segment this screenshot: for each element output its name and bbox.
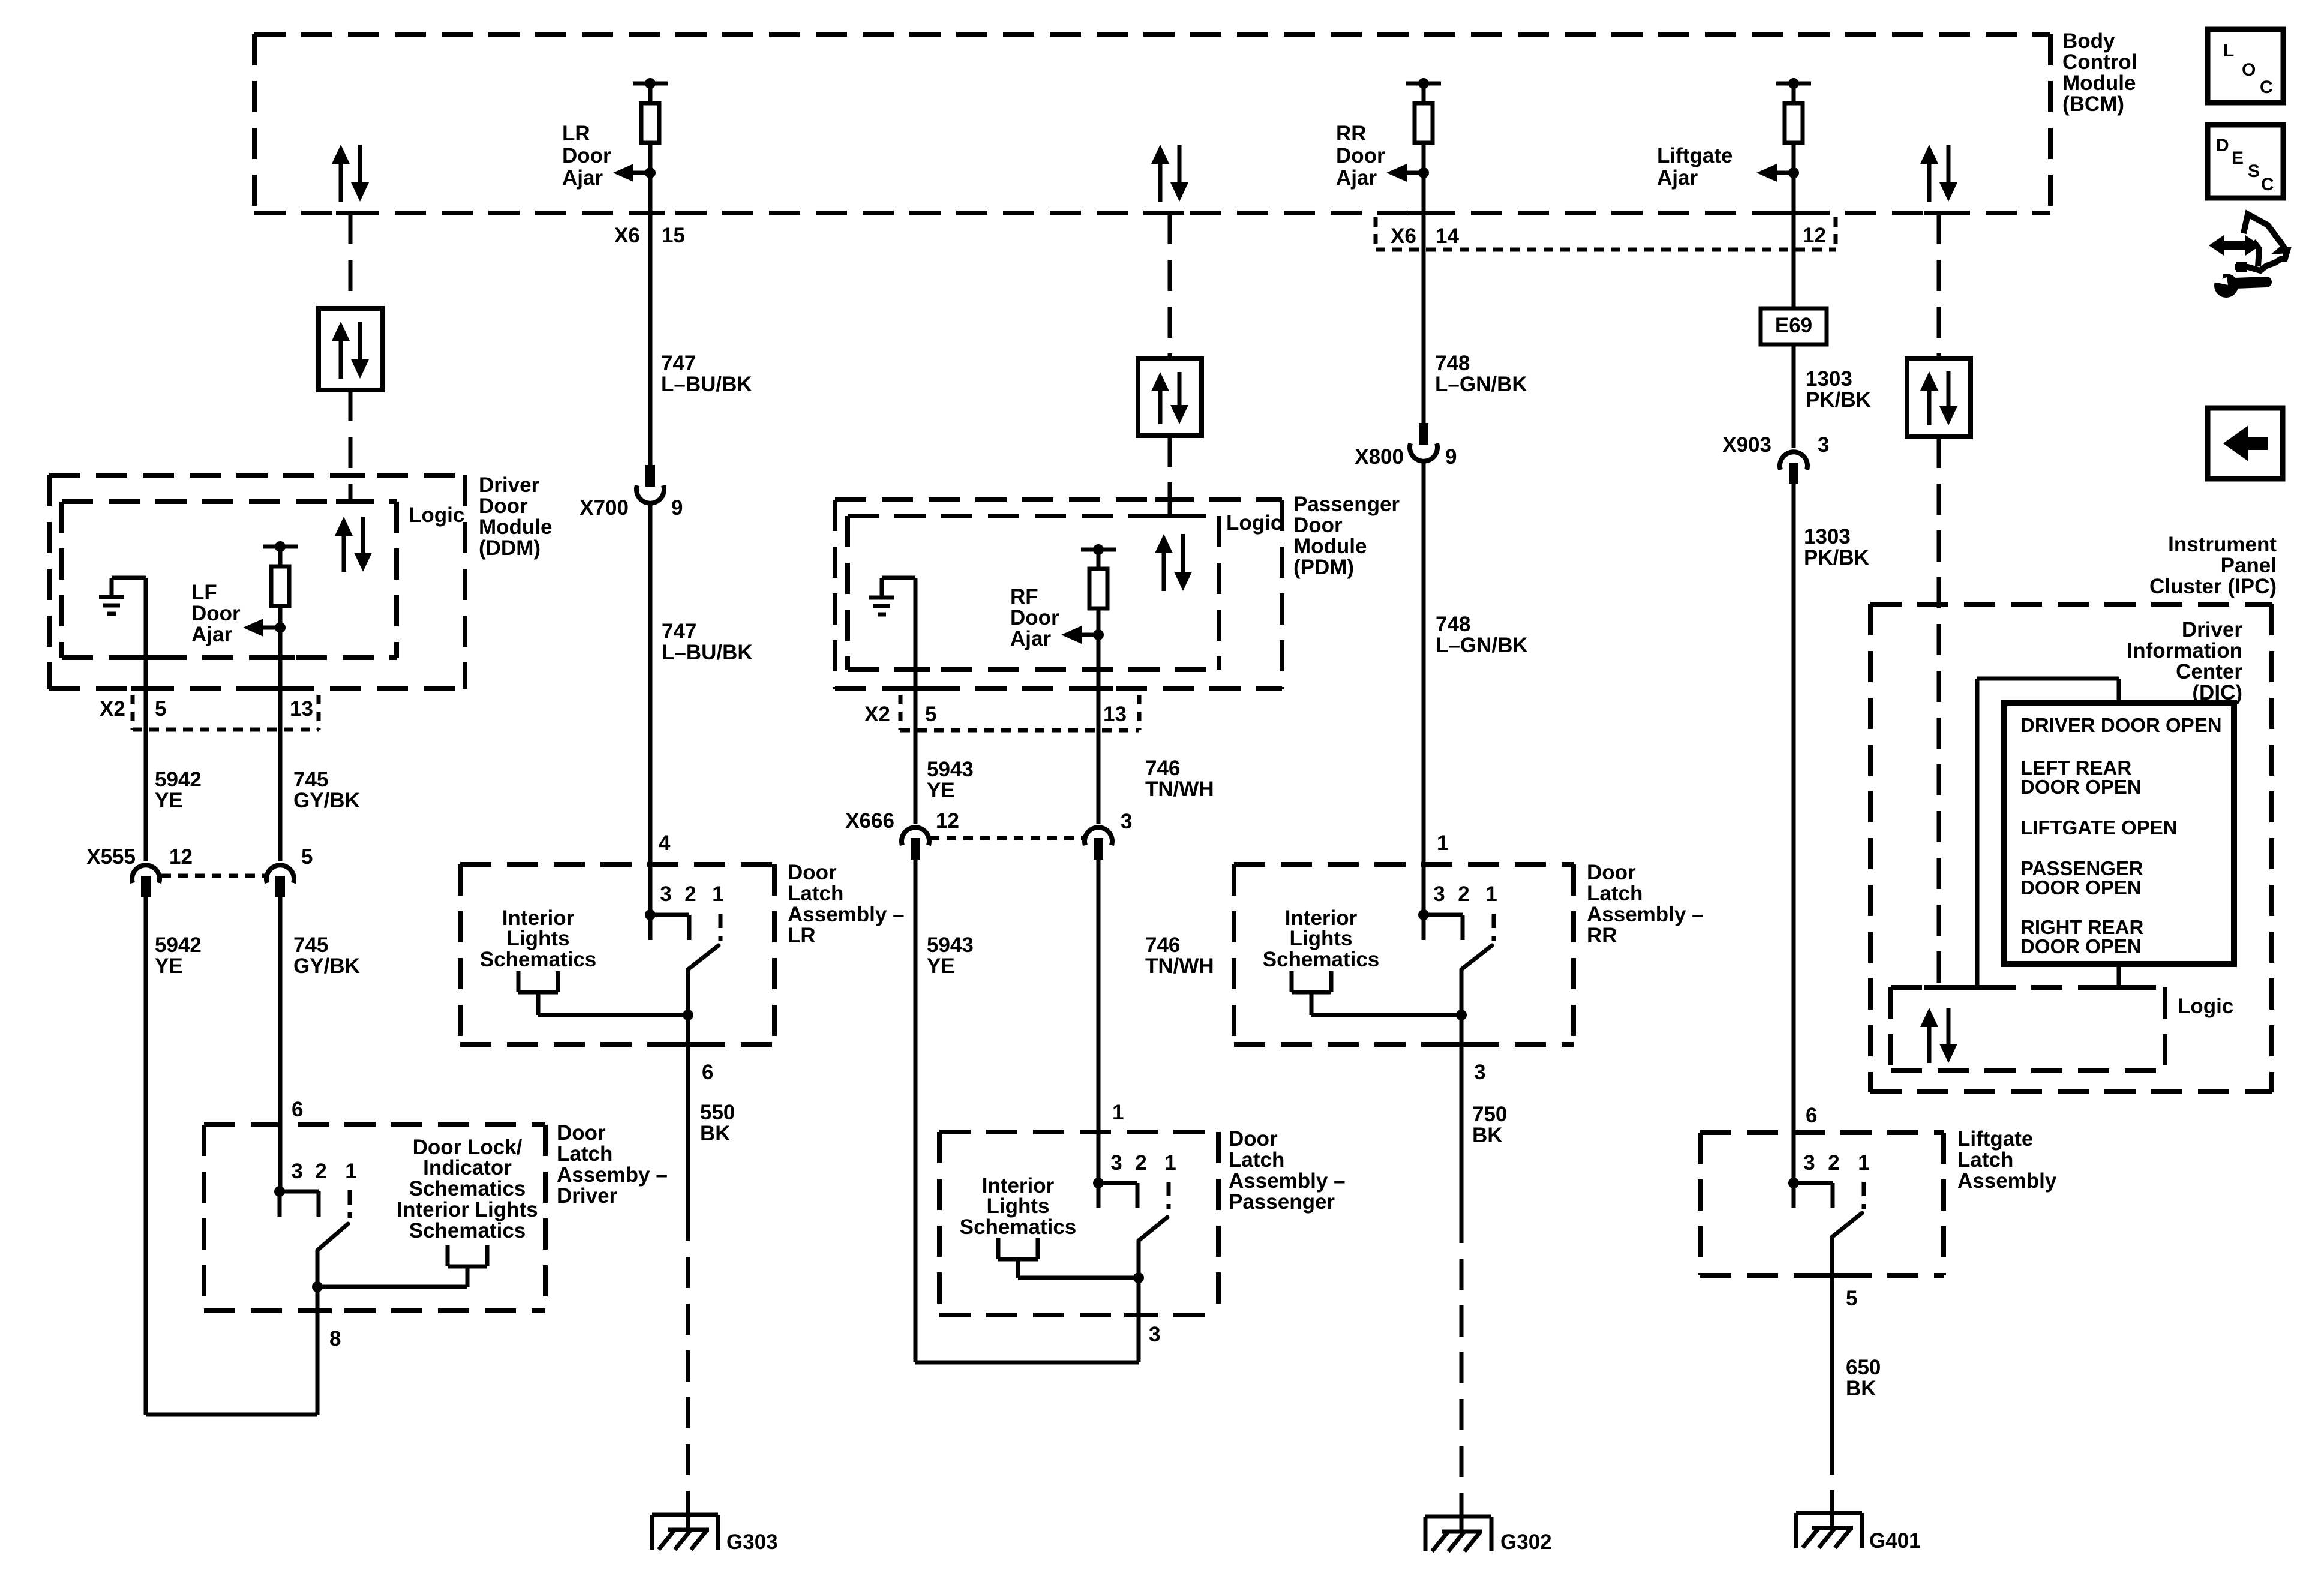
svg-text:Panel: Panel bbox=[2221, 554, 2277, 577]
svg-text:RF: RF bbox=[1010, 585, 1038, 608]
svg-text:Schematics: Schematics bbox=[1263, 948, 1380, 971]
svg-text:1: 1 bbox=[1112, 1101, 1124, 1124]
svg-text:Door: Door bbox=[562, 144, 611, 167]
svg-text:12: 12 bbox=[936, 809, 959, 833]
svg-text:1: 1 bbox=[712, 882, 723, 906]
svg-text:3: 3 bbox=[1803, 1151, 1815, 1175]
svg-text:DOOR OPEN: DOOR OPEN bbox=[2020, 776, 2142, 798]
svg-text:8: 8 bbox=[329, 1327, 341, 1350]
svg-text:Door: Door bbox=[479, 494, 528, 518]
svg-text:S: S bbox=[2248, 161, 2260, 181]
svg-text:15: 15 bbox=[662, 224, 685, 247]
svg-text:745: 745 bbox=[293, 933, 328, 957]
svg-text:BK: BK bbox=[1472, 1124, 1503, 1147]
svg-text:Schematics: Schematics bbox=[480, 948, 597, 971]
svg-text:LR: LR bbox=[788, 924, 816, 947]
svg-text:L–GN/BK: L–GN/BK bbox=[1436, 634, 1528, 657]
svg-text:Latch: Latch bbox=[788, 882, 843, 905]
svg-text:(BCM): (BCM) bbox=[2062, 92, 2124, 116]
svg-text:DOOR OPEN: DOOR OPEN bbox=[2020, 876, 2142, 899]
svg-text:Liftgate: Liftgate bbox=[1957, 1127, 2033, 1151]
svg-text:YE: YE bbox=[155, 789, 183, 812]
svg-text:747: 747 bbox=[662, 620, 696, 643]
svg-text:9: 9 bbox=[671, 496, 683, 520]
svg-text:(DDM): (DDM) bbox=[479, 536, 541, 560]
svg-text:750: 750 bbox=[1472, 1103, 1507, 1126]
svg-text:BK: BK bbox=[1846, 1377, 1876, 1400]
svg-text:L–BU/BK: L–BU/BK bbox=[662, 641, 753, 664]
svg-text:X700: X700 bbox=[580, 496, 629, 520]
svg-text:9: 9 bbox=[1445, 445, 1457, 469]
svg-text:748: 748 bbox=[1436, 613, 1470, 636]
svg-text:Module: Module bbox=[479, 515, 552, 539]
svg-text:TN/WH: TN/WH bbox=[1145, 778, 1214, 801]
svg-text:Body: Body bbox=[2062, 29, 2115, 53]
svg-text:L: L bbox=[2223, 41, 2234, 61]
svg-text:Door: Door bbox=[1293, 514, 1343, 537]
svg-text:650: 650 bbox=[1846, 1356, 1881, 1379]
svg-text:Assembly –: Assembly – bbox=[1587, 903, 1704, 926]
svg-text:6: 6 bbox=[702, 1061, 713, 1084]
svg-text:X666: X666 bbox=[845, 809, 894, 833]
svg-text:Latch: Latch bbox=[557, 1142, 612, 1166]
svg-text:Cluster (IPC): Cluster (IPC) bbox=[2149, 575, 2277, 598]
svg-text:PK/BK: PK/BK bbox=[1806, 388, 1871, 412]
svg-text:2: 2 bbox=[1828, 1151, 1839, 1175]
svg-text:Door: Door bbox=[788, 861, 837, 884]
svg-text:Passenger: Passenger bbox=[1229, 1190, 1335, 1214]
svg-text:13: 13 bbox=[1103, 703, 1127, 726]
svg-text:E69: E69 bbox=[1775, 314, 1812, 337]
svg-text:Interior Lights: Interior Lights bbox=[397, 1198, 538, 1221]
svg-text:Ajar: Ajar bbox=[1336, 166, 1377, 190]
svg-text:6: 6 bbox=[1806, 1104, 1817, 1127]
svg-text:747: 747 bbox=[661, 352, 696, 375]
svg-text:3: 3 bbox=[1474, 1061, 1485, 1084]
svg-text:X6: X6 bbox=[614, 224, 640, 247]
svg-text:LIFTGATE OPEN: LIFTGATE OPEN bbox=[2020, 816, 2178, 839]
svg-text:Door: Door bbox=[1229, 1127, 1278, 1151]
svg-text:Ajar: Ajar bbox=[562, 166, 603, 190]
svg-text:YE: YE bbox=[155, 954, 183, 978]
svg-text:RR: RR bbox=[1336, 122, 1367, 145]
svg-text:X903: X903 bbox=[1722, 433, 1771, 457]
svg-text:746: 746 bbox=[1145, 933, 1180, 957]
svg-text:748: 748 bbox=[1435, 352, 1470, 375]
svg-text:Instrument: Instrument bbox=[2168, 533, 2277, 556]
svg-text:Door: Door bbox=[1010, 606, 1059, 629]
svg-text:Ajar: Ajar bbox=[1657, 166, 1698, 190]
svg-text:1: 1 bbox=[1164, 1151, 1176, 1175]
svg-text:LF: LF bbox=[191, 581, 217, 604]
svg-text:Control: Control bbox=[2062, 50, 2137, 74]
svg-text:L–BU/BK: L–BU/BK bbox=[661, 373, 752, 396]
svg-text:TN/WH: TN/WH bbox=[1145, 954, 1214, 978]
svg-text:O: O bbox=[2242, 60, 2256, 80]
svg-text:RR: RR bbox=[1587, 924, 1617, 947]
svg-text:5942: 5942 bbox=[155, 768, 202, 791]
svg-text:12: 12 bbox=[1803, 224, 1826, 247]
svg-text:2: 2 bbox=[315, 1160, 326, 1183]
svg-text:DRIVER DOOR OPEN: DRIVER DOOR OPEN bbox=[2020, 714, 2222, 736]
svg-text:Door: Door bbox=[1587, 861, 1636, 884]
svg-text:Information: Information bbox=[2127, 639, 2242, 662]
svg-text:Center: Center bbox=[2176, 660, 2242, 683]
svg-text:5: 5 bbox=[301, 845, 313, 869]
svg-text:LR: LR bbox=[562, 122, 590, 145]
svg-text:6: 6 bbox=[292, 1098, 303, 1121]
svg-text:746: 746 bbox=[1145, 757, 1180, 780]
svg-text:C: C bbox=[2260, 77, 2273, 97]
svg-text:Schematics: Schematics bbox=[409, 1219, 526, 1242]
svg-text:5: 5 bbox=[1846, 1287, 1857, 1310]
svg-text:G303: G303 bbox=[726, 1530, 778, 1554]
svg-text:5943: 5943 bbox=[927, 758, 974, 781]
svg-text:1303: 1303 bbox=[1806, 367, 1852, 391]
svg-text:Assemby –: Assemby – bbox=[557, 1163, 668, 1187]
svg-text:3: 3 bbox=[660, 882, 671, 906]
svg-text:1: 1 bbox=[1485, 882, 1497, 906]
svg-text:3: 3 bbox=[1110, 1151, 1122, 1175]
svg-text:Lights: Lights bbox=[507, 927, 570, 950]
svg-text:PK/BK: PK/BK bbox=[1804, 546, 1869, 569]
svg-text:GY/BK: GY/BK bbox=[293, 954, 360, 978]
svg-text:Door: Door bbox=[1336, 144, 1385, 167]
svg-text:3: 3 bbox=[1818, 433, 1829, 457]
svg-text:YE: YE bbox=[927, 954, 955, 978]
svg-text:BK: BK bbox=[700, 1122, 731, 1145]
svg-text:Assembly –: Assembly – bbox=[788, 903, 905, 926]
svg-text:5: 5 bbox=[155, 697, 166, 721]
svg-text:YE: YE bbox=[927, 779, 955, 802]
svg-text:Logic: Logic bbox=[409, 503, 464, 527]
svg-text:C: C bbox=[2261, 175, 2274, 194]
svg-text:Lights: Lights bbox=[1290, 927, 1353, 950]
svg-text:X555: X555 bbox=[86, 845, 136, 869]
svg-text:1: 1 bbox=[345, 1160, 356, 1183]
svg-text:G401: G401 bbox=[1869, 1529, 1921, 1553]
svg-text:D: D bbox=[2216, 136, 2229, 155]
svg-text:14: 14 bbox=[1436, 224, 1459, 248]
svg-text:X800: X800 bbox=[1355, 445, 1404, 469]
svg-text:Schematics: Schematics bbox=[409, 1177, 526, 1200]
svg-text:Ajar: Ajar bbox=[191, 623, 232, 646]
svg-text:DOOR OPEN: DOOR OPEN bbox=[2020, 935, 2142, 957]
svg-text:E: E bbox=[2232, 148, 2244, 168]
svg-text:Module: Module bbox=[1293, 535, 1367, 558]
svg-text:Latch: Latch bbox=[1957, 1148, 2013, 1172]
svg-text:12: 12 bbox=[169, 845, 193, 869]
svg-text:550: 550 bbox=[700, 1101, 735, 1124]
svg-text:Door: Door bbox=[191, 602, 241, 625]
svg-text:Ajar: Ajar bbox=[1010, 627, 1051, 650]
svg-text:5: 5 bbox=[925, 703, 936, 726]
svg-text:1: 1 bbox=[1437, 831, 1448, 855]
svg-text:Door: Door bbox=[557, 1121, 606, 1145]
svg-text:Passenger: Passenger bbox=[1293, 493, 1400, 516]
svg-text:Lights: Lights bbox=[987, 1194, 1050, 1218]
svg-text:Assembly –: Assembly – bbox=[1229, 1169, 1346, 1193]
svg-text:X2: X2 bbox=[100, 697, 125, 721]
svg-text:2: 2 bbox=[1135, 1151, 1146, 1175]
svg-text:3: 3 bbox=[1433, 882, 1445, 906]
svg-text:Latch: Latch bbox=[1229, 1148, 1284, 1172]
svg-text:Logic: Logic bbox=[1226, 511, 1282, 535]
svg-text:Latch: Latch bbox=[1587, 882, 1643, 905]
svg-text:Indicator: Indicator bbox=[423, 1156, 512, 1179]
svg-text:5942: 5942 bbox=[155, 933, 202, 957]
svg-text:Assembly: Assembly bbox=[1957, 1169, 2057, 1193]
svg-text:Driver: Driver bbox=[2182, 618, 2243, 641]
svg-text:(PDM): (PDM) bbox=[1293, 556, 1354, 579]
svg-text:1: 1 bbox=[1858, 1151, 1869, 1175]
svg-text:1303: 1303 bbox=[1804, 525, 1851, 548]
svg-text:X2: X2 bbox=[864, 703, 890, 726]
svg-text:GY/BK: GY/BK bbox=[293, 789, 360, 812]
svg-text:Module: Module bbox=[2062, 71, 2136, 95]
svg-text:L–GN/BK: L–GN/BK bbox=[1435, 373, 1527, 396]
svg-text:X6: X6 bbox=[1391, 224, 1416, 248]
svg-text:3: 3 bbox=[1121, 810, 1132, 833]
svg-text:745: 745 bbox=[293, 768, 328, 791]
svg-text:Liftgate: Liftgate bbox=[1657, 144, 1733, 167]
svg-text:2: 2 bbox=[1458, 882, 1469, 906]
svg-text:Logic: Logic bbox=[2178, 995, 2233, 1018]
svg-text:13: 13 bbox=[290, 697, 313, 721]
svg-text:Schematics: Schematics bbox=[960, 1215, 1077, 1239]
svg-text:3: 3 bbox=[291, 1160, 302, 1183]
svg-text:3: 3 bbox=[1149, 1323, 1160, 1346]
svg-text:4: 4 bbox=[659, 831, 671, 855]
svg-text:Driver: Driver bbox=[479, 473, 540, 497]
svg-text:2: 2 bbox=[684, 882, 696, 906]
svg-text:5943: 5943 bbox=[927, 933, 974, 957]
svg-text:G302: G302 bbox=[1500, 1530, 1552, 1554]
svg-text:Driver: Driver bbox=[557, 1184, 618, 1208]
